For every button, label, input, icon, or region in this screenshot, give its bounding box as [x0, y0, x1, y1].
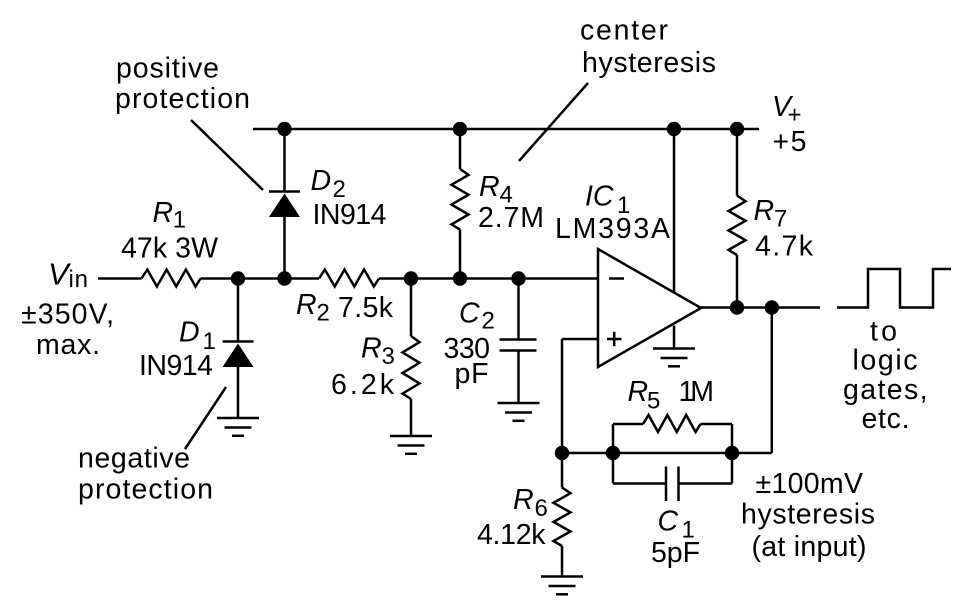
wire: R7 to output node [736, 255, 739, 308]
node: rail junction at D2 [277, 122, 291, 136]
node: rail junction at R4 [453, 122, 467, 136]
diode D1 [223, 342, 254, 368]
label R5 1M [628, 376, 715, 415]
wire: R5 branch left lead [613, 423, 643, 426]
wire: R5 branch right riser [731, 424, 734, 453]
label C2 330 pF [444, 298, 495, 391]
node: R3 junction [404, 271, 418, 285]
svg-text:R: R [754, 195, 775, 227]
svg-text:4.12k: 4.12k [477, 519, 546, 551]
node: R7 output junction [730, 300, 744, 314]
wire: plus input lead [562, 338, 598, 341]
ground at IC1 [653, 349, 695, 367]
label D1 [179, 317, 216, 356]
wire: D2 anode to input node [283, 217, 286, 279]
svg-text:47k 3W: 47k 3W [121, 233, 218, 265]
wire: R5 branch right lead [701, 423, 733, 426]
svg-text:R: R [628, 376, 649, 408]
label D2 value IN914 [313, 199, 387, 231]
svg-text:4.7k: 4.7k [755, 231, 814, 263]
svg-text:R: R [479, 171, 500, 203]
wire: C1 branch right riser [731, 453, 734, 484]
resistor R1 [142, 270, 201, 287]
label center hysteresis [580, 15, 716, 80]
wire: D1 cathode to input node [237, 279, 240, 342]
label R4 2.7M [478, 171, 544, 234]
svg-text:gates,: gates, [843, 374, 928, 406]
svg-text:IC: IC [585, 181, 614, 213]
label Vin [48, 257, 88, 294]
svg-text:protection: protection [115, 83, 250, 115]
wire: V+ supply rail [253, 128, 759, 131]
svg-text:C: C [459, 298, 480, 330]
svg-text:R: R [361, 333, 382, 365]
wire: R6 to ground [561, 546, 564, 577]
svg-text:positive: positive [116, 53, 219, 85]
svg-text:negative: negative [78, 443, 190, 475]
svg-text:+: + [788, 102, 802, 129]
wire: input node to C2 [517, 279, 520, 340]
label R7 4.7k [754, 195, 814, 263]
svg-text:IN914: IN914 [139, 350, 213, 382]
svg-text:R: R [153, 197, 174, 229]
node: R4 junction [453, 271, 467, 285]
wire: feedback node to R6 [561, 453, 564, 488]
label R3 6.2k [331, 333, 395, 402]
svg-text:±350V,: ±350V, [21, 299, 114, 331]
label to logic gates etc. [843, 316, 928, 436]
svg-text:hysteresis: hysteresis [741, 499, 875, 531]
wire: input node to R3 [410, 279, 413, 337]
label D1 value IN914 [139, 350, 213, 382]
node: D2 junction [277, 271, 291, 285]
wire: rail to R7 [736, 129, 739, 196]
resistor R6 [554, 488, 571, 547]
svg-text:3: 3 [382, 343, 395, 370]
square wave output symbol [837, 269, 951, 308]
node: R6 feedback junction [555, 446, 569, 460]
node: D1 junction [231, 271, 245, 285]
svg-text:6: 6 [535, 495, 548, 522]
pointer line: positive protection to D2 [191, 120, 263, 190]
ground at D1 [217, 418, 259, 436]
wire: R4 to input node [459, 230, 462, 279]
node: feedback output junction [765, 300, 779, 314]
op-amp plus input symbol [607, 332, 622, 346]
wire: plus input down to feedback node [561, 339, 564, 453]
resistor R5 [643, 415, 701, 432]
node: C2 junction [511, 271, 525, 285]
svg-text:1: 1 [173, 207, 186, 234]
wire: C2 to ground [517, 351, 520, 404]
svg-text:2.7M: 2.7M [478, 202, 544, 234]
wire: C1 branch left lead [613, 482, 666, 485]
svg-text:IN914: IN914 [313, 199, 387, 231]
wire: D2 cathode to rail [283, 129, 286, 192]
node: R5/C1 right junction [725, 446, 739, 460]
node: R5/C1 left junction [606, 446, 620, 460]
wire: R5 branch left riser [612, 424, 615, 453]
resistor R4 [452, 169, 469, 230]
ground at C2 [498, 403, 540, 421]
svg-text:pF: pF [455, 358, 489, 390]
label positive protection [115, 53, 250, 116]
svg-text:max.: max. [36, 329, 100, 361]
wire: IC1 ground pin [673, 326, 676, 349]
svg-text:R: R [513, 484, 534, 516]
wire: feedback node row [562, 452, 732, 455]
svg-text:D: D [179, 317, 200, 349]
ground at R3 [390, 436, 432, 454]
svg-text:logic: logic [853, 345, 918, 377]
ground at R6 [541, 577, 583, 595]
op-amp U1 (IC1 LM393A comparator) [598, 249, 701, 367]
label R6 4.12k [477, 484, 548, 551]
diode D2 [269, 192, 300, 218]
label V+ supply [772, 91, 802, 129]
wire: D1 anode to ground [237, 367, 240, 418]
wire: R3 to ground [410, 399, 413, 436]
label D2 [311, 165, 346, 203]
svg-text:to: to [870, 316, 897, 348]
svg-text:2: 2 [482, 308, 495, 335]
node: rail junction at R7 [730, 122, 744, 136]
capacitor C1 [666, 467, 679, 502]
svg-text:2: 2 [317, 300, 330, 327]
wire: Vin lead [98, 277, 142, 280]
svg-text:5: 5 [647, 388, 660, 415]
label ±100mV hysteresis (at input) [741, 468, 875, 563]
resistor R7 [729, 196, 746, 256]
svg-text:5pF: 5pF [651, 537, 700, 569]
pointer line: negative protection to D1 ground [185, 387, 226, 449]
svg-text:C: C [658, 506, 679, 538]
pointer line: center hysteresis to R4 node [519, 83, 588, 161]
svg-text:±100mV: ±100mV [756, 468, 864, 500]
label +5 value [773, 126, 807, 158]
wire: R1 to R2 segment [201, 277, 320, 280]
op-amp minus input symbol [609, 277, 624, 280]
wire: comparator output [701, 306, 820, 309]
label LM393A [555, 213, 670, 245]
svg-text:7.5k: 7.5k [338, 292, 394, 324]
svg-text:in: in [69, 266, 89, 293]
label R1 [153, 197, 187, 234]
label IC1 [585, 181, 630, 220]
svg-text:7: 7 [774, 206, 787, 233]
wire: R2 to comparator minus input [379, 277, 598, 280]
svg-text:protection: protection [78, 474, 213, 506]
label C1 5pF [651, 506, 700, 570]
svg-text:LM393A: LM393A [555, 213, 670, 245]
label R2 7.5k [296, 289, 394, 327]
svg-text:(at input): (at input) [752, 531, 867, 563]
label R1 value 47k 3W [121, 233, 218, 265]
svg-text:center: center [580, 15, 669, 47]
svg-text:etc.: etc. [862, 403, 910, 435]
resistor R2 [319, 270, 379, 287]
svg-text:1M: 1M [679, 376, 715, 408]
wire: output down to feedback [732, 308, 772, 454]
resistor R3 [403, 336, 420, 399]
wire: rail to IC1 V+ pin [673, 129, 676, 292]
svg-text:hysteresis: hysteresis [582, 47, 716, 79]
svg-text:R: R [296, 289, 317, 321]
node: rail junction at IC1 V+ pin [667, 122, 681, 136]
svg-text:6.2k: 6.2k [331, 369, 395, 401]
wire: rail to R4 [459, 129, 462, 169]
capacitor C2 [500, 340, 537, 351]
wire: C1 branch right lead [679, 482, 733, 485]
wire: C1 branch left riser [612, 453, 615, 484]
svg-text:D: D [311, 165, 332, 197]
label negative protection [78, 443, 213, 506]
label ±350V, max. [21, 299, 114, 362]
